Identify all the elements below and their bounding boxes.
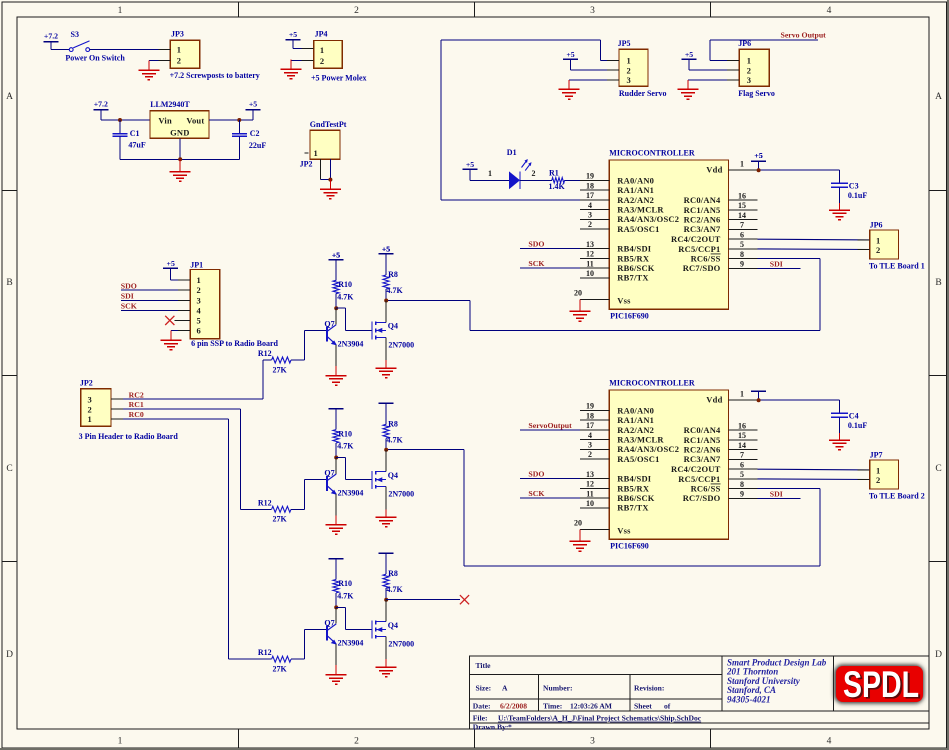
svg-text:S3: S3 — [71, 30, 79, 39]
svg-text:+5: +5 — [289, 30, 297, 39]
svg-text:JP3: JP3 — [171, 29, 184, 38]
wire — [565, 179, 580, 181]
node R8/Q4 drain junction — [384, 598, 388, 602]
svg-text:SDO: SDO — [121, 281, 137, 290]
power port +5 (JP6) — [682, 58, 697, 60]
svg-text:R10: R10 — [338, 280, 352, 289]
svg-text:Q4: Q4 — [388, 621, 398, 630]
svg-text:To TLE Board 1: To TLE Board 1 — [869, 261, 925, 270]
wire pin2 to ground — [149, 60, 171, 62]
svg-text:RC2: RC2 — [129, 390, 144, 399]
svg-text:R12: R12 — [258, 349, 272, 358]
svg-text:R10: R10 — [338, 429, 352, 438]
svg-text:0.1uF: 0.1uF — [848, 191, 867, 200]
title block — [469, 656, 929, 729]
ground — [179, 159, 181, 172]
svg-text:15: 15 — [738, 431, 746, 440]
svg-text:15: 15 — [738, 201, 746, 210]
resistor R8 4.7K — [383, 424, 389, 438]
svg-text:3: 3 — [747, 75, 751, 85]
svg-text:R12: R12 — [258, 648, 272, 657]
svg-text:+5 Power Molex: +5 Power Molex — [311, 74, 367, 83]
wire MCU2 RC4 to JP7 pin1 — [758, 468, 870, 471]
svg-text:R8: R8 — [388, 569, 398, 578]
svg-text:R12: R12 — [258, 498, 272, 507]
node — [757, 398, 761, 402]
svg-text:2: 2 — [177, 56, 181, 66]
switch S3 Power On Switch — [69, 48, 73, 52]
svg-text:MICROCONTROLLER: MICROCONTROLLER — [609, 148, 695, 157]
svg-text:4: 4 — [588, 431, 592, 440]
svg-text:1: 1 — [88, 414, 92, 424]
svg-text:RC7/SDO: RC7/SDO — [683, 263, 721, 273]
svg-text:RA1/AN1: RA1/AN1 — [617, 415, 654, 425]
connector JP2 3 Pin Header to Radio Board — [81, 389, 111, 427]
pin 13 RB4/SDI — [580, 248, 609, 250]
wire Vdd — [758, 399, 840, 401]
svg-text:GND: GND — [170, 128, 190, 138]
svg-text:6: 6 — [197, 326, 201, 336]
svg-text:SDO: SDO — [528, 240, 544, 249]
regulator U LM2940T — [150, 111, 209, 139]
svg-text:RC3/AN7: RC3/AN7 — [684, 454, 721, 464]
svg-text:+5: +5 — [249, 99, 257, 108]
svg-text:RB6/SCK: RB6/SCK — [617, 263, 654, 273]
capacitor C4 0.1uF — [839, 400, 841, 413]
resistor R12 27K — [272, 506, 291, 512]
connector JP5 Rudder Servo — [619, 49, 648, 86]
svg-text:D: D — [935, 650, 942, 660]
node R8/Q4 drain junction — [384, 448, 388, 452]
svg-text:C: C — [6, 464, 12, 474]
transistor Q4 2N7000 — [371, 621, 373, 639]
wire Vdd — [758, 169, 840, 171]
ground — [839, 433, 841, 440]
svg-text:+7.2: +7.2 — [94, 100, 108, 109]
node GND junction — [178, 157, 182, 161]
resistor R8 4.7K — [383, 275, 389, 289]
net label SDO (MCU2) — [520, 478, 580, 480]
svg-text:7: 7 — [740, 451, 744, 460]
pin 5 RC5/CCP1 — [729, 248, 758, 250]
svg-text:3: 3 — [588, 441, 592, 450]
svg-text:27K: 27K — [273, 515, 288, 524]
svg-text:5: 5 — [740, 470, 744, 479]
svg-text:RB4/SDI: RB4/SDI — [617, 244, 651, 254]
svg-text:19: 19 — [586, 172, 594, 181]
svg-text:RC1/AN5: RC1/AN5 — [684, 205, 721, 215]
pin 17 RA2/AN2 — [580, 199, 609, 201]
svg-text:To TLE Board 2: To TLE Board 2 — [869, 491, 925, 500]
svg-text:3: 3 — [627, 75, 631, 85]
svg-text:RB5/RX: RB5/RX — [617, 483, 650, 493]
svg-text:16: 16 — [738, 421, 746, 430]
svg-text:2: 2 — [197, 285, 201, 295]
ground — [568, 80, 570, 90]
power port +5 (R10) — [329, 408, 344, 410]
svg-text:SCK: SCK — [528, 259, 544, 268]
svg-text:PIC16F690: PIC16F690 — [610, 542, 649, 551]
ground — [839, 203, 841, 210]
ground — [335, 366, 337, 376]
svg-text:A: A — [6, 92, 13, 102]
pin 4 RA3/MCLR — [580, 439, 609, 441]
wire R12 to Q7 base — [291, 359, 305, 361]
svg-text:Number:: Number: — [543, 684, 573, 693]
ground — [148, 61, 150, 70]
wire — [571, 69, 620, 71]
svg-text:SDO: SDO — [528, 470, 544, 479]
node R10/Q7 junction — [334, 605, 338, 609]
svg-text:RC3/AN7: RC3/AN7 — [684, 224, 721, 234]
svg-text:B: B — [935, 278, 941, 288]
svg-text:A: A — [935, 92, 942, 102]
pin 12 RB5/RX — [580, 487, 609, 489]
no connect X (JP1 pin5) — [175, 320, 191, 322]
svg-text:1: 1 — [320, 45, 324, 55]
svg-text:4: 4 — [588, 201, 592, 210]
wire MCU2 RC6 to driver 2 output — [758, 488, 821, 490]
svg-text:18: 18 — [586, 411, 594, 420]
wire R12 to Q7 base — [291, 508, 305, 510]
svg-text:1: 1 — [118, 737, 123, 747]
power port +5 (JP1) — [163, 267, 178, 269]
resistor R12 27K — [272, 656, 291, 662]
wire — [520, 179, 552, 181]
svg-text:C: C — [935, 464, 941, 474]
svg-text:4.7K: 4.7K — [337, 592, 354, 601]
svg-text:RA4/AN3/OSC2: RA4/AN3/OSC2 — [617, 444, 679, 454]
resistor R8 4.7K — [383, 574, 389, 588]
svg-text:9: 9 — [740, 260, 744, 269]
svg-text:GndTestPt: GndTestPt — [310, 120, 347, 129]
svg-text:RC2/AN6: RC2/AN6 — [684, 445, 721, 455]
svg-text:2: 2 — [588, 220, 592, 229]
pin 17 RA2/AN2 — [580, 429, 609, 431]
svg-text:RC5/CCP1: RC5/CCP1 — [678, 474, 720, 484]
wire — [385, 588, 387, 600]
svg-text:1: 1 — [118, 6, 123, 16]
svg-text:19: 19 — [586, 402, 594, 411]
power port +7.2 (regulator input) — [93, 109, 108, 111]
svg-text:SDI: SDI — [121, 291, 134, 300]
svg-text:RB7/TX: RB7/TX — [617, 273, 649, 283]
wire JP6 pin1 Servo Output — [710, 59, 739, 61]
ground — [329, 180, 331, 190]
pin 9 RC7/SDO — [729, 497, 758, 499]
svg-text:12:03:26 AM: 12:03:26 AM — [570, 701, 612, 710]
svg-text:3: 3 — [197, 295, 201, 305]
svg-text:2: 2 — [588, 450, 592, 459]
pin 2 RA5/OSC1 — [580, 458, 609, 460]
node — [328, 178, 332, 182]
pin 2 RA5/OSC1 — [580, 228, 609, 230]
power port +5 (Vdd) — [751, 390, 766, 392]
svg-text:JP2: JP2 — [80, 378, 93, 387]
svg-text:4.7K: 4.7K — [337, 292, 354, 301]
power port +7.2 (switch) — [44, 41, 59, 43]
svg-text:A: A — [502, 684, 508, 693]
svg-text:Vss: Vss — [617, 295, 631, 305]
node — [757, 168, 761, 172]
svg-text:4.7K: 4.7K — [387, 435, 404, 444]
svg-text:+5: +5 — [332, 250, 340, 259]
power port +5 (R8) — [379, 552, 394, 554]
wire R12 to Q7 base — [291, 658, 305, 660]
svg-text:2N7000: 2N7000 — [388, 340, 414, 349]
svg-text:6/2/2008: 6/2/2008 — [500, 701, 527, 710]
wire MCU1 RC5 to JP pin2 — [758, 248, 870, 251]
svg-text:*: * — [508, 722, 512, 731]
svg-text:of: of — [664, 701, 671, 710]
svg-text:+7.2 Screwposts to battery: +7.2 Screwposts to battery — [170, 71, 260, 80]
svg-text:MICROCONTROLLER: MICROCONTROLLER — [609, 378, 695, 387]
svg-text:+5: +5 — [167, 259, 175, 268]
pin 20 Vss — [580, 528, 609, 530]
connector JP4 (+5 Power Molex) — [314, 41, 343, 69]
wire Q7 collector to Q4 gate — [336, 457, 345, 459]
pin 18 RA1/AN1 — [580, 189, 609, 191]
svg-text:12: 12 — [586, 250, 594, 259]
ground — [385, 509, 387, 517]
power port +5 (R8) — [379, 253, 394, 255]
svg-text:RC0/AN4: RC0/AN4 — [684, 195, 721, 205]
svg-text:11: 11 — [586, 259, 594, 268]
svg-text:Sheet: Sheet — [634, 701, 652, 710]
connector pin stubs (black) — [158, 49, 170, 51]
svg-text:R8: R8 — [388, 419, 398, 428]
pin 6 RC4/C2OUT — [729, 238, 758, 240]
svg-text:+5: +5 — [466, 160, 474, 169]
svg-text:1: 1 — [740, 159, 744, 168]
svg-text:5: 5 — [197, 316, 201, 326]
svg-text:20: 20 — [574, 289, 582, 298]
svg-text:SPDL: SPDL — [843, 664, 919, 705]
svg-text:1.4K: 1.4K — [549, 182, 566, 191]
svg-text:RA2/AN2: RA2/AN2 — [617, 425, 654, 435]
svg-text:B: B — [6, 278, 12, 288]
wire Q7 collector to Q4 gate — [336, 606, 345, 608]
svg-text:D1: D1 — [507, 148, 517, 157]
svg-text:+5: +5 — [754, 151, 762, 160]
net label SDO (MCU1) — [520, 248, 580, 250]
svg-text:2N3904: 2N3904 — [338, 489, 364, 498]
svg-text:RC0/AN4: RC0/AN4 — [684, 425, 721, 435]
svg-text:Q7: Q7 — [324, 469, 334, 478]
transistor Q4 2N7000 — [371, 322, 373, 340]
wire JP5 pin1 to MCU1 RA2 — [600, 59, 619, 61]
net label SDI (MCU2) — [758, 497, 801, 499]
svg-text:3: 3 — [588, 211, 592, 220]
svg-text:RB5/RX: RB5/RX — [617, 253, 650, 263]
pin 11 RB6/SCK — [580, 497, 609, 499]
wire — [335, 294, 337, 309]
connector JP1 6 pin SSP to Radio Board — [190, 270, 219, 339]
svg-text:+5: +5 — [685, 50, 693, 59]
capacitor C1 47uF — [119, 120, 121, 134]
wire MCU1 RC6 to driver 1 output — [758, 258, 821, 260]
svg-text:3: 3 — [590, 737, 595, 747]
svg-text:6 pin SSP to Radio Board: 6 pin SSP to Radio Board — [191, 339, 278, 348]
svg-text:RA1/AN1: RA1/AN1 — [617, 185, 654, 195]
svg-text:SDI: SDI — [770, 259, 783, 268]
pin 15 RC1/AN5 — [729, 209, 758, 211]
net label SCK (JP1 pin4) — [121, 309, 190, 311]
svg-text:13: 13 — [586, 240, 594, 249]
power port +5 (LED) — [463, 168, 478, 170]
svg-text:16: 16 — [738, 191, 746, 200]
wire MCU2 RC5 to JP7 pin2 — [758, 478, 870, 481]
svg-text:ServoOutput: ServoOutput — [528, 421, 572, 430]
svg-text:Revision:: Revision: — [634, 684, 664, 693]
svg-text:14: 14 — [738, 211, 746, 220]
svg-text:Time:: Time: — [543, 701, 562, 710]
svg-text:RC0: RC0 — [129, 410, 144, 419]
connector JP3 (+7.2 Screwposts to battery) — [170, 40, 200, 68]
wire — [293, 48, 314, 50]
svg-text:Vout: Vout — [186, 116, 204, 126]
svg-text:2: 2 — [354, 6, 359, 16]
svg-text:27K: 27K — [273, 365, 288, 374]
svg-text:14: 14 — [738, 441, 746, 450]
svg-text:Q7: Q7 — [324, 319, 334, 328]
net label ServoOutput (MCU2) — [520, 429, 580, 431]
power port +5 (R10) — [329, 558, 344, 560]
svg-text:2: 2 — [354, 737, 359, 747]
svg-text:3: 3 — [590, 6, 595, 16]
connector JP7 To TLE Board 2 — [870, 460, 899, 489]
svg-text:2: 2 — [747, 65, 751, 75]
svg-text:2: 2 — [876, 475, 880, 485]
net label SDO (JP1 pin2) — [121, 289, 190, 291]
svg-text:13: 13 — [586, 470, 594, 479]
svg-text:94305-4021: 94305-4021 — [727, 695, 771, 705]
pin 20 Vss — [580, 298, 609, 300]
svg-text:JP1: JP1 — [190, 260, 203, 269]
transistor Q7 2N3904 — [335, 308, 337, 324]
pin 14 RC2/AN6 — [729, 219, 758, 221]
svg-text:10: 10 — [586, 269, 594, 278]
svg-text:2N7000: 2N7000 — [388, 490, 414, 499]
svg-text:JP7: JP7 — [870, 450, 883, 459]
svg-text:47uF: 47uF — [128, 141, 145, 150]
wire testpoint to ground — [320, 159, 322, 179]
resistor R10 4.7K — [333, 280, 339, 293]
svg-text:JP2: JP2 — [300, 160, 313, 169]
svg-text:2N3904: 2N3904 — [338, 339, 364, 348]
svg-text:C1: C1 — [130, 129, 140, 138]
svg-text:Title: Title — [476, 661, 492, 670]
pin 1 Vdd — [729, 399, 758, 401]
svg-text:+7.2: +7.2 — [44, 31, 58, 40]
wire Q7 collector to Q4 gate — [336, 307, 345, 309]
power port +5 (regulator output) — [246, 109, 261, 111]
svg-text:1: 1 — [488, 169, 492, 178]
svg-text:Date:: Date: — [473, 701, 491, 710]
svg-text:RC7/SDO: RC7/SDO — [683, 493, 721, 503]
svg-text:7: 7 — [740, 221, 744, 230]
svg-text:12: 12 — [586, 480, 594, 489]
net label SCK (MCU1) — [520, 267, 580, 269]
svg-text:Flag Servo: Flag Servo — [738, 89, 775, 98]
svg-text:RC4/C2OUT: RC4/C2OUT — [671, 234, 721, 244]
svg-text:SDI: SDI — [770, 489, 783, 498]
wire — [90, 49, 171, 51]
pin 3 RA4/AN3/OSC2 — [580, 448, 609, 450]
svg-text:JP4: JP4 — [315, 29, 328, 38]
svg-text:4.7K: 4.7K — [337, 442, 354, 451]
no connect X (driver 3) — [460, 595, 469, 604]
svg-text:C2: C2 — [250, 129, 260, 138]
svg-text:1: 1 — [740, 389, 744, 398]
pin 8 RC6/SS — [729, 488, 758, 490]
svg-text:R8: R8 — [388, 270, 398, 279]
svg-text:Vin: Vin — [158, 116, 172, 126]
transistor Q7 2N3904 — [335, 458, 337, 474]
svg-text:4: 4 — [197, 305, 202, 315]
svg-text:2: 2 — [320, 56, 324, 66]
wire — [335, 593, 337, 608]
node Vin junction — [118, 118, 122, 122]
svg-text:2: 2 — [627, 65, 631, 75]
svg-text:0.1uF: 0.1uF — [848, 421, 867, 430]
capacitor C3 0.1uF — [839, 170, 841, 183]
svg-text:2: 2 — [532, 169, 536, 178]
pin 18 RA1/AN1 — [580, 419, 609, 421]
svg-text:Drawn By:: Drawn By: — [473, 722, 509, 731]
svg-text:1: 1 — [876, 235, 880, 245]
svg-text:RA5/OSC1: RA5/OSC1 — [617, 224, 659, 234]
svg-text:Q4: Q4 — [388, 322, 398, 331]
svg-text:RA0/AN0: RA0/AN0 — [617, 175, 654, 185]
pin 6 RC4/C2OUT — [729, 468, 758, 470]
op-amp U2 MICROCONTROLLER PIC16F690 — [609, 390, 728, 539]
svg-text:RC4/C2OUT: RC4/C2OUT — [671, 464, 721, 474]
power port +5 (Vdd) — [751, 160, 766, 162]
connector JP6 To TLE Board 1 — [870, 230, 899, 259]
ground — [335, 665, 337, 675]
ground — [579, 299, 581, 311]
wire ground bus — [120, 158, 239, 160]
svg-text:Vdd: Vdd — [706, 395, 722, 405]
svg-text:JP5: JP5 — [618, 39, 631, 48]
svg-text:27K: 27K — [273, 665, 288, 674]
pin 1 Vdd — [729, 169, 758, 171]
svg-text:RA3/MCLR: RA3/MCLR — [617, 435, 664, 445]
svg-text:1: 1 — [627, 56, 631, 66]
svg-text:RC2/AN6: RC2/AN6 — [684, 215, 721, 225]
wire — [689, 69, 739, 71]
svg-text:6: 6 — [740, 230, 744, 239]
pin 12 RB5/RX — [580, 257, 609, 259]
svg-text:Size:: Size: — [476, 684, 492, 693]
wire — [385, 438, 387, 450]
power port +5 (R8) — [379, 402, 394, 404]
wire — [101, 119, 150, 121]
svg-text:RB4/SDI: RB4/SDI — [617, 474, 651, 484]
svg-text:RC1/AN5: RC1/AN5 — [684, 435, 721, 445]
svg-text:17: 17 — [586, 191, 594, 200]
pin 11 RB6/SCK — [580, 267, 609, 269]
svg-text:+5: +5 — [566, 50, 574, 59]
pin 14 RC2/AN6 — [729, 449, 758, 451]
svg-text:Q7: Q7 — [324, 619, 334, 628]
svg-text:SS: SS — [711, 484, 721, 494]
svg-text:1: 1 — [314, 148, 318, 158]
wire — [209, 119, 253, 121]
svg-text:10: 10 — [586, 499, 594, 508]
svg-text:1: 1 — [747, 56, 751, 66]
